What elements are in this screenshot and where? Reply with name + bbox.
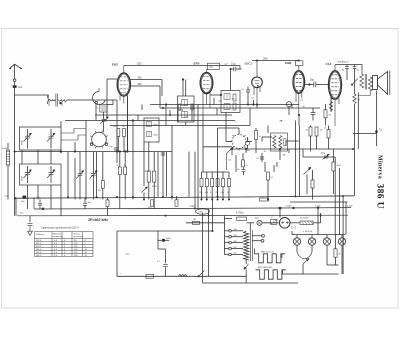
wire left edge link — [15, 198, 17, 216]
wire shunt down — [335, 257, 337, 265]
junction choke riser — [320, 215, 322, 217]
svg-text:240: 240 — [234, 229, 237, 231]
switch output pivot — [351, 84, 353, 86]
wire trimmer down — [103, 121, 105, 132]
junction 166 — [165, 103, 167, 105]
wire speaker return — [376, 91, 378, 134]
variable capacitor C1b arrow — [29, 170, 31, 172]
variable capacitor C2b arrow — [53, 170, 55, 172]
svg-text:50k: 50k — [221, 192, 224, 194]
wire gang step 2 — [61, 135, 86, 140]
resistor 700 — [101, 181, 104, 189]
wire CY1 top feed — [279, 208, 281, 218]
junction 232 — [231, 148, 233, 150]
switch output diag — [352, 78, 358, 84]
wire osc line — [15, 151, 172, 153]
ground arrow — [28, 226, 33, 235]
svg-text:1k: 1k — [264, 151, 266, 153]
wire EK2 g4 — [130, 79, 162, 81]
wire box1 top stub — [60, 121, 62, 127]
junction 183 — [182, 78, 184, 80]
junction 117 — [116, 150, 118, 152]
resistor 1,5 — [327, 130, 330, 138]
wire r50low down — [312, 188, 314, 200]
wire col 236 — [235, 155, 237, 172]
svg-text:CL4: CL4 — [326, 62, 332, 66]
lamp La4 — [338, 238, 345, 245]
wire cap 4u A tail — [346, 69, 348, 80]
tube CY1 internals — [281, 221, 289, 223]
wire r107 dn — [107, 207, 109, 216]
svg-text:xy°: xy° — [225, 64, 228, 66]
antenna — [9, 64, 22, 69]
resistor 70 — [118, 167, 121, 175]
capacitor ant series — [13, 85, 17, 88]
svg-text:spannung: spannung — [74, 236, 84, 238]
wire resistor 5000 down — [148, 182, 150, 199]
wire meander1 out — [281, 254, 283, 258]
trimmer capacitor osc — [100, 117, 109, 124]
wire r500 down — [117, 137, 119, 152]
wire power bottom link — [203, 282, 247, 284]
svg-text:1nF: 1nF — [18, 87, 23, 89]
wire cap0u dn — [243, 172, 245, 175]
wire col 292 — [291, 105, 293, 109]
svg-text:125 V: 125 V — [36, 243, 42, 245]
terminal tap 240V — [229, 230, 232, 233]
svg-text:150: 150 — [234, 247, 237, 249]
wire EF9 top — [207, 69, 208, 72]
wire resistor bank 3 top — [217, 172, 219, 179]
wire r50w up — [255, 128, 257, 131]
resistor 50k — [205, 179, 208, 187]
wire mains drop 2 — [165, 249, 167, 263]
wire col 217 — [216, 108, 218, 115]
wire C1a bot — [27, 138, 29, 149]
switch mains — [199, 271, 205, 277]
wire switch down — [302, 264, 304, 274]
wire col 295 — [295, 121, 297, 197]
wire meander1 in — [254, 249, 256, 254]
wire cap busAB 2 — [39, 206, 41, 209]
junction 268 — [267, 199, 269, 201]
wire EM4 to cap — [305, 84, 314, 86]
wire junction col — [60, 150, 62, 153]
svg-text:Gw: Gw — [20, 213, 24, 215]
wire cap to CL4 — [316, 84, 329, 86]
wire cap85 dn — [84, 206, 86, 209]
trimmer arrowhead — [106, 117, 108, 119]
junction 133 — [132, 119, 134, 121]
lamp La3 — [323, 238, 330, 245]
wire mains left end — [116, 231, 118, 276]
wire EBC3 pins — [254, 87, 260, 105]
wire C2a top — [50, 129, 52, 136]
wire col 280 — [279, 149, 281, 160]
output transformer primary — [360, 74, 364, 88]
capacitor 0,5 ebc3 — [246, 90, 250, 92]
wire tap 240 right — [231, 230, 243, 232]
wire coil tails — [49, 101, 62, 107]
wire resistor 40 down — [124, 175, 126, 200]
svg-text:150 V: 150 V — [36, 246, 42, 248]
resistor 5000 — [147, 171, 150, 182]
switch wafer S1c — [232, 135, 246, 149]
junction busA 68 — [67, 196, 69, 198]
wire resistor bank 4 top — [222, 172, 224, 179]
wire 50 down — [316, 136, 318, 149]
wire C1b bot — [27, 175, 29, 184]
junction busB CY1 — [279, 207, 282, 210]
svg-text:50mA/2min: 50mA/2min — [338, 61, 350, 64]
wire b+ line right — [230, 148, 353, 150]
junction gang — [60, 150, 62, 152]
wire col 198 — [197, 105, 199, 210]
terminal secondary 1 — [262, 234, 265, 237]
wire lamp 2 bottom — [311, 245, 313, 252]
lamp La2 — [308, 238, 315, 245]
svg-text:Spannungen gemessen bei 220 V: Spannungen gemessen bei 220 V — [41, 226, 79, 229]
wire EK2 pin drop — [127, 126, 129, 152]
wire col 75 — [74, 142, 76, 152]
antenna coil T1 secondary — [58, 100, 67, 102]
svg-text:EK2: EK2 — [112, 62, 118, 66]
wire mid 202 — [290, 201, 348, 203]
wire P1 bottom — [79, 175, 81, 199]
wire box2 right — [60, 185, 62, 216]
resistor 500 ek2 — [117, 129, 120, 137]
svg-text:200: 200 — [137, 61, 142, 65]
variable capacitor C2a arrow — [53, 133, 55, 135]
wire tap 220 left — [225, 236, 229, 238]
wire top small — [107, 104, 113, 106]
wire L2 down — [103, 112, 105, 119]
wire bus A — [15, 196, 354, 198]
trimmer P1 arrow — [82, 171, 84, 173]
junction 253 — [252, 103, 254, 105]
switch wafer S1b contacts — [90, 131, 108, 149]
wire C2a bot — [50, 138, 52, 149]
wire col 144 — [143, 142, 145, 186]
jack circle — [287, 102, 292, 107]
wire col 274 — [273, 165, 275, 172]
coil osc 2 — [147, 132, 152, 137]
wire 178 link — [178, 109, 183, 111]
svg-text:u 4Ω 0,1µ: u 4Ω 0,1µ — [303, 230, 313, 233]
junction 127 151 — [126, 150, 128, 152]
resistor filter choke — [300, 221, 313, 225]
junction busA 117 — [116, 196, 118, 198]
fuse on bus B — [196, 209, 210, 214]
wire EM4 top — [298, 65, 300, 70]
svg-text:Minerva: Minerva — [377, 155, 383, 179]
capacitor 0,1 osc — [114, 148, 118, 150]
wire wafer top link — [218, 127, 240, 129]
wire power left enclosure — [202, 213, 204, 283]
svg-text:4µF: 4µF — [255, 218, 259, 220]
wire tap 240 left — [225, 230, 229, 232]
junction bank 1 — [206, 199, 208, 201]
wire bank rail 147 — [203, 146, 232, 148]
wire return stub — [376, 134, 378, 147]
wire col 158L — [157, 152, 159, 197]
switch wafer S1c contacts — [230, 132, 248, 150]
wire coupling cap out — [236, 68, 242, 70]
wire col 232 low — [231, 149, 233, 156]
svg-text:EBC3 EF9 EK2: EBC3 EF9 EK2 — [258, 267, 273, 269]
junction busA 295 — [295, 195, 297, 197]
wire 4000 down — [333, 171, 335, 194]
coil T1 core — [56, 94, 57, 107]
resistor 50 low — [311, 180, 314, 188]
wire wafer diag — [227, 147, 234, 171]
svg-text:50Ω: 50Ω — [138, 83, 143, 86]
wire col 268 low — [267, 180, 269, 200]
wire EK2 cathode pins — [120, 96, 128, 127]
resistor 3000 — [153, 171, 156, 182]
wire r50w dn — [255, 140, 257, 154]
svg-text:EF9: EF9 — [194, 62, 200, 66]
wire col 183 — [182, 80, 184, 97]
capacitor 85 — [83, 203, 87, 205]
capacitor mains 2 — [163, 264, 168, 266]
wire resistor bank top rail — [202, 171, 230, 173]
loudspeaker — [373, 71, 390, 96]
svg-text:2R: 2R — [280, 121, 283, 123]
wire lamp3 link — [327, 264, 339, 266]
resistor 200 mid — [151, 200, 154, 206]
svg-text:0,1µ: 0,1µ — [109, 146, 114, 148]
box above EM4 — [295, 61, 303, 66]
resistor 1k — [228, 179, 231, 187]
wire resistor 5000 up — [148, 142, 150, 171]
wire xfmr drop A top — [354, 69, 356, 94]
oscillator coil box — [144, 118, 159, 142]
terminal tap 150V — [229, 247, 232, 250]
wire col 346 drop — [345, 202, 347, 235]
svg-text:5-600: 5-600 — [2, 148, 8, 150]
tube EF9 — [200, 72, 213, 93]
resistor T3 2 — [233, 103, 236, 110]
wire choke riser — [320, 213, 322, 223]
switch arrow tone head — [308, 167, 311, 170]
wire b+ caps rail — [335, 65, 362, 74]
junction 163 108 — [162, 107, 164, 109]
wire resistor bank 5 top — [228, 172, 230, 179]
coil det 1 — [273, 136, 276, 149]
capacitor 100u tone — [325, 155, 327, 159]
wire tap 220 right — [231, 236, 243, 238]
svg-text:220 V: 220 V — [36, 252, 42, 254]
resistor 40 — [124, 167, 127, 175]
junction gang 2 — [74, 150, 76, 152]
wire resistor bank 1 bottom — [206, 187, 208, 200]
switch lamp b — [304, 252, 312, 259]
wire coil bend — [48, 95, 49, 98]
junction 257 — [256, 103, 258, 105]
wire gang stub 4 — [37, 185, 39, 200]
wire resistor bank 4 bottom — [222, 187, 224, 200]
junction busB 195 — [194, 207, 196, 209]
tube EM4 — [293, 71, 305, 94]
capacitor ground — [28, 223, 33, 225]
capacitor mains blob — [162, 239, 165, 242]
wire lamp 4 bottom — [341, 245, 343, 274]
svg-text:386 U: 386 U — [375, 184, 385, 210]
wire C1b top — [27, 166, 29, 173]
resistor heater chain 2 — [256, 270, 287, 279]
junction 170 115 — [169, 114, 171, 116]
wire col 133 — [132, 121, 134, 200]
wire gang stub 5 — [50, 185, 52, 209]
wire CL4 pins — [331, 99, 339, 127]
svg-text:500: 500 — [113, 126, 116, 128]
wire P2 top — [93, 152, 95, 173]
tube CY1 — [279, 218, 290, 229]
wire tap column — [224, 216, 226, 255]
junction busB cap1 — [292, 207, 294, 209]
variable capacitor C1a arrow — [29, 133, 31, 135]
fuse mains — [146, 274, 154, 278]
wire col 113 — [112, 100, 114, 105]
svg-text:220: 220 — [234, 235, 237, 237]
svg-text:50: 50 — [123, 126, 125, 128]
tube EBC3 — [252, 77, 263, 88]
wire antenna lead — [14, 64, 16, 79]
tuning gang box 2 — [20, 164, 62, 185]
wire P2 bottom — [93, 175, 95, 199]
resistor 25 — [309, 127, 312, 136]
wire lamp 3 top — [326, 235, 328, 238]
wire gang link 2 — [37, 150, 39, 164]
wire col 335 drop — [334, 157, 336, 235]
terminal S1a — [95, 101, 97, 103]
wire col 96b — [96, 152, 98, 197]
resistor filter hatch — [302, 221, 313, 224]
switch lamp arrow — [303, 259, 309, 265]
junction bank 3 — [217, 199, 219, 201]
wire col 142 — [141, 105, 143, 111]
wire col 68 — [67, 152, 69, 197]
capacitor 4uF A — [345, 67, 349, 69]
wire col 176 up — [176, 196, 178, 200]
wire col 178 — [177, 110, 179, 122]
power transformer core — [250, 230, 252, 261]
switch arrow mid head — [145, 187, 147, 189]
wire T2 top feed — [185, 80, 187, 97]
svg-text:100: 100 — [209, 66, 214, 69]
resistor on busA — [260, 198, 269, 201]
wire col 303 — [302, 149, 304, 157]
wire tone stub — [306, 175, 308, 195]
wire col 170 — [169, 110, 171, 115]
wire resistor bank 1 top — [206, 172, 208, 179]
wire resistor 40 up — [124, 152, 126, 168]
wire tap 125 right — [231, 254, 243, 256]
wire lamp bottom rail — [298, 273, 339, 275]
wire resistor bank 0 top — [201, 172, 203, 179]
wire col 212 low — [212, 200, 214, 232]
wire col 195 — [194, 152, 196, 209]
wire antenna to coil — [15, 94, 48, 96]
wire col 331 — [330, 97, 332, 112]
wire CL4 top to output — [334, 65, 336, 71]
junction 212 low — [212, 230, 214, 232]
wire 200 bus — [252, 60, 299, 62]
wire busB to 4700 — [225, 218, 233, 220]
wire P1 top — [79, 152, 81, 173]
resistor 107 — [106, 200, 109, 207]
junction busB left — [42, 208, 45, 211]
svg-text:ZF=462 kHz: ZF=462 kHz — [88, 218, 108, 222]
junction coupling — [230, 68, 232, 70]
wire winding to bottom rail — [245, 270, 247, 284]
junction 246 — [245, 148, 247, 150]
capacitor busA-busB — [38, 203, 42, 205]
capacitor det trim — [284, 139, 286, 146]
wire blob link — [158, 239, 169, 241]
capacitor 313 — [311, 113, 316, 115]
wire r50 down — [123, 137, 125, 152]
wire EK2 top cap — [124, 66, 240, 73]
wire col 277 — [276, 162, 278, 167]
svg-text:185 V: 185 V — [36, 249, 42, 251]
svg-text:110 V: 110 V — [36, 240, 42, 242]
wire resistor bank 0 bottom — [201, 187, 203, 200]
wire xfmr drop A — [354, 104, 356, 196]
wire col 127 — [127, 96, 129, 152]
svg-text:2M: 2M — [283, 154, 286, 156]
resistor surge NTC — [271, 220, 277, 225]
wire cap to CY1 — [262, 222, 278, 224]
wire col 265 — [264, 162, 266, 172]
coil T2 primary — [182, 100, 188, 106]
wire af line — [95, 114, 232, 116]
wire C2b bot — [50, 175, 52, 184]
wire col 166 — [165, 105, 167, 126]
wire col 214 — [213, 98, 215, 105]
resistor 5M — [353, 94, 356, 104]
wire r107 up — [107, 198, 109, 200]
wire EK2 g2 drop — [159, 86, 161, 96]
coil 5-600 hatch — [7, 152, 10, 162]
wire col 192 — [191, 105, 193, 121]
resistor 268 — [267, 172, 270, 180]
meter Dm — [245, 141, 249, 145]
wire col 203 — [202, 115, 204, 172]
resistor 50k — [222, 179, 225, 187]
wire coil to grid circuit — [67, 99, 117, 101]
switch lamp a — [297, 252, 305, 259]
tuning gang box 1 — [20, 127, 62, 150]
switch wafer S1b — [92, 132, 107, 147]
IF transformer can T2 — [178, 96, 195, 122]
resistor 50 ek2 — [123, 129, 126, 137]
junction speaker return — [375, 130, 378, 133]
wire col 262 — [261, 137, 263, 142]
svg-text:~220: ~220 — [125, 253, 131, 255]
wire cap0u up — [243, 168, 245, 170]
terminal tap 125V — [229, 253, 232, 256]
junction 343 busA — [342, 195, 344, 197]
svg-text:1M: 1M — [199, 192, 202, 194]
svg-text:240 V: 240 V — [36, 255, 42, 257]
wire mains drop 1 — [157, 231, 159, 249]
resistor lamp shunt — [334, 249, 337, 257]
coil T3 secondary — [224, 104, 230, 110]
svg-text:0,5µ: 0,5µ — [5, 196, 10, 198]
coil det 2 — [279, 136, 282, 149]
